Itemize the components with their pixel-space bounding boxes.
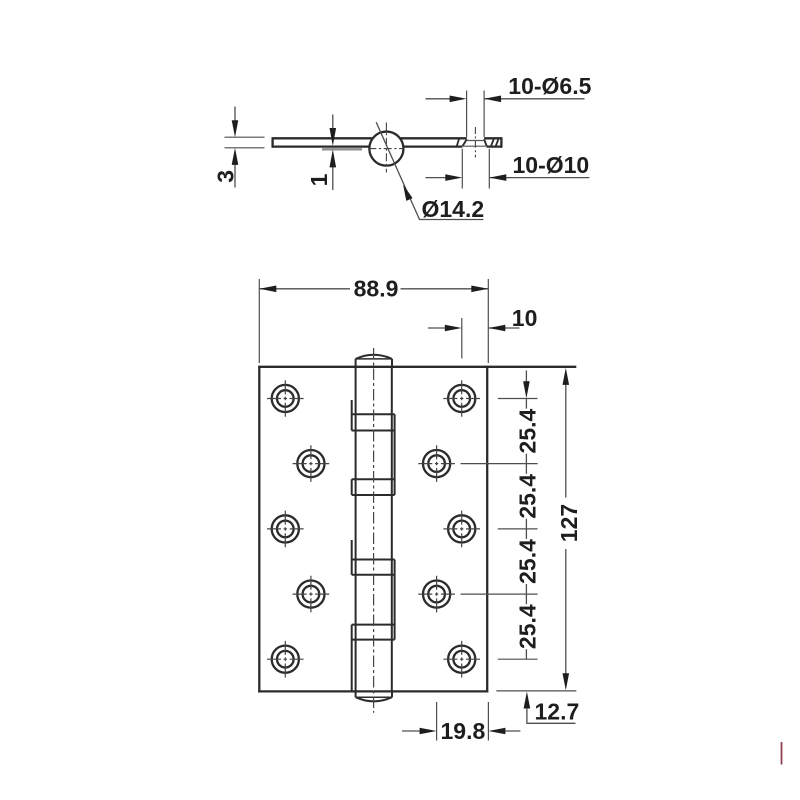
svg-text:1: 1 (306, 173, 332, 186)
svg-text:25.4: 25.4 (514, 604, 540, 649)
svg-text:10-Ø6.5: 10-Ø6.5 (508, 73, 591, 99)
svg-text:25.4: 25.4 (514, 409, 540, 454)
svg-text:25.4: 25.4 (514, 539, 540, 584)
svg-text:3: 3 (212, 170, 238, 183)
svg-text:25.4: 25.4 (514, 474, 540, 519)
svg-text:127: 127 (556, 504, 582, 542)
svg-text:88.9: 88.9 (354, 275, 399, 301)
svg-text:12.7: 12.7 (535, 698, 580, 724)
svg-text:10-Ø10: 10-Ø10 (513, 152, 590, 178)
svg-text:Ø14.2: Ø14.2 (422, 196, 485, 222)
svg-text:10: 10 (512, 305, 538, 331)
svg-text:19.8: 19.8 (441, 718, 486, 744)
